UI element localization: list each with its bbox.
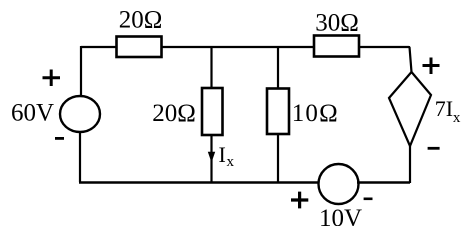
wire right vertical up to diamond <box>409 146 411 183</box>
label 10V <box>319 205 362 232</box>
source V1 60V circle <box>60 96 100 132</box>
label 20ohm middle <box>152 100 196 127</box>
wire middle vertical 1 upper <box>210 47 212 88</box>
svg-text:10Ω: 10Ω <box>292 100 339 127</box>
wire left vertical below source <box>79 132 81 182</box>
minus sign of 60V <box>55 137 64 140</box>
wire top-middle segment <box>162 46 313 48</box>
wire top-right corner down to diamond <box>409 46 412 72</box>
wire top-right segment <box>359 46 409 48</box>
label 60V <box>11 99 54 126</box>
wire top-left segment <box>81 46 116 48</box>
label 7Ix <box>435 96 461 126</box>
svg-text:x: x <box>227 154 235 170</box>
wire bottom-right segment <box>357 181 410 184</box>
wire left vertical from top corner to source <box>80 46 82 96</box>
svg-text:20Ω: 20Ω <box>119 7 163 34</box>
svg-text:30Ω: 30Ω <box>315 10 359 37</box>
minus sign of 10V <box>364 198 373 201</box>
plus sign of 10V <box>291 192 308 209</box>
resistor R1 20ohm horizontal <box>117 37 162 58</box>
wire bottom-left long segment <box>79 181 319 184</box>
svg-text:x: x <box>453 110 461 126</box>
svg-text:I: I <box>219 142 226 167</box>
wire middle vertical 2 upper <box>277 47 279 88</box>
label 20ohm top <box>119 7 163 34</box>
svg-text:7I: 7I <box>435 96 453 121</box>
plus sign of 60V <box>43 70 61 87</box>
label 30ohm top <box>315 10 359 37</box>
svg-text:10V: 10V <box>319 205 362 226</box>
minus sign of 7Ix <box>428 147 440 150</box>
svg-text:60V: 60V <box>11 99 54 126</box>
source V2 10V circle <box>319 164 359 204</box>
wire middle vertical 2 lower <box>277 134 279 182</box>
label Ix <box>219 142 235 170</box>
svg-text:20Ω: 20Ω <box>152 100 196 127</box>
plus sign of 7Ix <box>423 58 440 75</box>
resistor R3 20ohm vertical <box>202 88 223 135</box>
resistor R4 10ohm vertical <box>267 89 289 135</box>
dependent source 7Ix diamond <box>389 72 431 146</box>
wire middle vertical 1 lower <box>210 135 212 182</box>
current arrow Ix head <box>208 152 215 163</box>
resistor R2 30ohm horizontal <box>314 36 359 57</box>
label 10ohm <box>292 100 339 127</box>
